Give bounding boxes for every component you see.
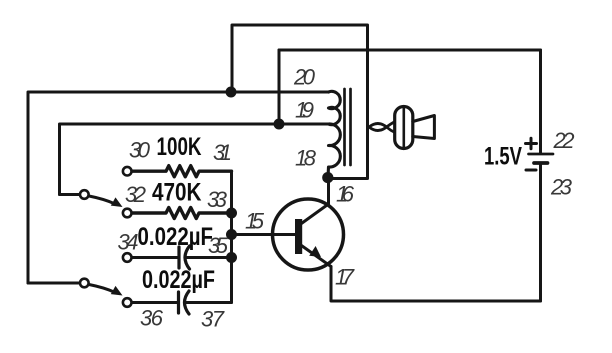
junction dot secondary vertical / tap-19 wire xyxy=(274,119,285,130)
capacitor C1 straight plate xyxy=(177,247,180,268)
junction dot top rect / tap-20 wire xyxy=(226,87,237,98)
svg-text:16: 16 xyxy=(336,182,355,207)
switch S2 contact wire xyxy=(28,282,80,285)
svg-text:17: 17 xyxy=(335,265,355,290)
earphone capsule xyxy=(395,107,413,149)
transformer T1 primary coil xyxy=(328,91,340,177)
terminal circle node 30 xyxy=(123,167,132,176)
wire secondary top (y=50 from x=279 to battery x=540.5) xyxy=(279,50,541,152)
svg-text:34: 34 xyxy=(118,230,139,255)
transistor Q1 circle xyxy=(273,199,344,270)
transformer T1 core line 1 xyxy=(343,89,346,165)
svg-text:31: 31 xyxy=(213,140,232,165)
svg-text:32: 32 xyxy=(125,182,146,207)
svg-text:0.022µF: 0.022µF xyxy=(142,266,215,294)
capacitor C1 curved plate xyxy=(185,246,190,269)
wire collector lead (node 16) xyxy=(327,177,330,204)
battery plus sign xyxy=(526,138,537,149)
capacitor C2 curved plate xyxy=(185,291,190,314)
switch S2 pole circle xyxy=(80,279,89,288)
transistor Q1 emitter line xyxy=(300,245,331,267)
wire emitter lead to bottom rail (node 17) xyxy=(331,267,541,302)
terminal circle node 36 xyxy=(123,298,132,307)
terminal circle node 34 xyxy=(123,253,132,262)
svg-text:22: 22 xyxy=(553,128,575,153)
wire left vertical from x=279 down to tap-19 wire xyxy=(278,50,281,124)
svg-text:36: 36 xyxy=(140,306,164,331)
battery B1 short negative plate xyxy=(534,161,548,165)
switch S2 arrowhead xyxy=(111,286,123,296)
capacitor C2 0.022uF leads xyxy=(133,301,179,304)
earphone twisted pair diverging strand upper xyxy=(387,122,396,128)
svg-text:470K: 470K xyxy=(152,179,202,207)
wire top rectangle (y=25, verticals x=232 and x=367.5 down to coil-bottom rail) xyxy=(232,25,368,179)
capacitor C2 straight plate xyxy=(177,292,180,313)
junction dot node 33 xyxy=(226,208,237,219)
svg-text:30: 30 xyxy=(129,138,151,163)
transistor Q1 collector line xyxy=(300,204,329,225)
battery B1 top lead xyxy=(539,50,542,153)
resistor R2 470K body xyxy=(133,208,232,219)
transistor Q1 emitter arrowhead xyxy=(309,246,321,257)
wire tap-19 horizontal (y=124 from inner-left x=59.5 to coil) xyxy=(60,124,329,195)
switch S2 arm arc xyxy=(89,285,114,293)
svg-text:1.5V: 1.5V xyxy=(484,143,522,171)
terminal circle node 32 xyxy=(123,209,132,218)
resistor R1 100K body xyxy=(133,166,232,177)
switch S1 contact wire xyxy=(60,193,81,196)
earphone twisted pair diverging strand lower xyxy=(387,127,396,133)
battery B1 long positive plate xyxy=(529,153,554,156)
svg-text:100K: 100K xyxy=(157,133,202,161)
junction dot node 35 xyxy=(226,252,237,263)
earphone diaphragm line xyxy=(402,108,405,148)
junction dot coil bottom node 18/16 xyxy=(322,172,333,183)
earphone twisted pair lens top strand xyxy=(369,124,387,128)
svg-text:0.022µF: 0.022µF xyxy=(138,223,214,251)
earphone horn xyxy=(413,116,435,139)
capacitor C1 0.022uF leads xyxy=(133,256,179,259)
svg-text:18: 18 xyxy=(295,146,317,171)
transistor Q1 base bar xyxy=(295,219,302,254)
wire base lead (node 15) xyxy=(232,233,296,236)
svg-text:23: 23 xyxy=(550,175,573,200)
switch S1 arrowhead xyxy=(111,197,123,207)
svg-text:33: 33 xyxy=(207,187,228,212)
wire node column vertical (x=231.5 from 100K down to cap row 2) xyxy=(230,171,233,302)
switch S1 arm arc xyxy=(89,196,114,204)
junction dot node 15 xyxy=(226,229,237,240)
wire tap-20 horizontal (y=92 from outer-left x=28 to coil) xyxy=(28,92,328,283)
battery minus sign xyxy=(526,169,536,172)
switch S1 pole circle xyxy=(80,190,89,199)
svg-text:37: 37 xyxy=(201,307,225,332)
earphone twisted pair lens bottom strand xyxy=(369,127,387,131)
svg-text:19: 19 xyxy=(295,98,314,123)
battery B1 bottom lead xyxy=(539,163,542,301)
transformer T1 core line 2 xyxy=(349,89,352,165)
svg-text:15: 15 xyxy=(245,209,265,234)
svg-text:20: 20 xyxy=(293,65,316,90)
